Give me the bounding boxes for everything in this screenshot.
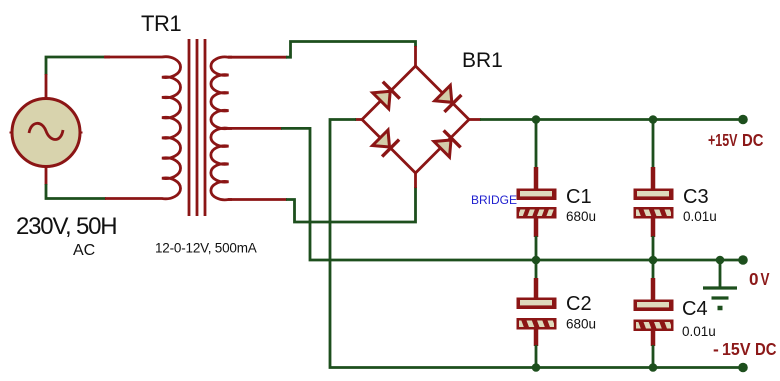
wire: C2 bottom (green) (535, 345, 538, 368)
node: -15V rail / C2 (532, 363, 541, 372)
svg-text:+15VDC: +15VDC (708, 130, 764, 150)
svg-text:C2: C2 (566, 293, 592, 315)
wire: C2 leads (red) (534, 278, 539, 346)
svg-text:0.01u: 0.01u (682, 324, 716, 339)
node: -15V terminal (738, 363, 748, 373)
wire: C3-C4 mid (green) (652, 236, 655, 279)
wire: C1-C2 mid (green) (535, 236, 538, 279)
capacitor C1 (517, 189, 563, 222)
wire: secondary top to bridge top (green) (286, 42, 416, 58)
svg-text:C3: C3 (683, 186, 709, 208)
node: +15V rail / C1 (532, 115, 541, 124)
wire: bridge top stub (red) (414, 46, 417, 67)
wire: +15V rail (green) (480, 118, 743, 121)
diode D3 (left to bottom) (373, 130, 400, 157)
capacitor C4 (634, 300, 683, 334)
ground (703, 260, 737, 308)
wire: primary top (red horizontal) (104, 56, 110, 59)
wire: AC source bottom lead (red vertical) (45, 166, 48, 185)
transformer TR1 core (189, 39, 205, 216)
wire: C3 leads (red) (651, 167, 656, 237)
wire: AC source top lead (red vertical) (45, 74, 48, 98)
node: +15V terminal (738, 115, 748, 125)
wire: AC source top lead (green corner) (46, 57, 106, 75)
node: 0V rail / C3-C4 (649, 256, 658, 265)
svg-text:12-0-12V, 500mA: 12-0-12V, 500mA (155, 241, 257, 256)
wire: bridge bottom stub (red) (414, 172, 417, 188)
node: -15V rail / C4 (649, 363, 658, 372)
node: +15V rail / C3 (649, 115, 658, 124)
svg-text:TR1: TR1 (141, 11, 181, 36)
bridge BR1 (362, 66, 469, 173)
transformer TR1 secondary bottom coil (211, 128, 232, 200)
diode D1 (left to top) (373, 82, 400, 109)
bridge edge top-left (362, 66, 416, 120)
capacitor C2 (517, 298, 566, 333)
wire: C4 bottom (green) (652, 345, 655, 368)
svg-text:680u: 680u (566, 209, 596, 224)
wire: bridge right stub (red) (469, 118, 481, 121)
wire: bridge left stub (red) (355, 118, 362, 121)
bridge edge bottom-right (416, 120, 470, 174)
svg-text:0.01u: 0.01u (683, 209, 717, 224)
wire: AC source bottom lead (green corner) (46, 184, 106, 199)
bridge edge bottom-left (362, 120, 416, 174)
wire: secondary bottom terminal (red) (228, 198, 287, 201)
svg-text:680u: 680u (566, 317, 596, 332)
transformer TR1 primary coil (105, 57, 181, 199)
wire: secondary top terminal (red) (228, 56, 287, 59)
transformer TR1 secondary top coil (211, 57, 232, 129)
diode D2 (top to right) (435, 85, 462, 112)
bridge edge top-right (416, 66, 470, 120)
svg-text:BR1: BR1 (462, 49, 503, 72)
wire: bridge left to -15V rail (green) (330, 120, 743, 368)
node: 0V rail / C1-C2 (532, 256, 541, 265)
wire: C1 upper (green) (535, 120, 538, 169)
svg-text:-15VDC: -15VDC (713, 339, 777, 359)
svg-text:C1: C1 (566, 186, 592, 208)
node: 0V terminal (738, 255, 748, 265)
diode D4 (bottom to right) (434, 130, 461, 157)
AC source V1 (10, 99, 83, 167)
svg-text:230V, 50H: 230V, 50H (16, 213, 116, 240)
wire: C1 upper (red) (534, 167, 539, 237)
svg-text:AC: AC (73, 242, 95, 259)
wire: center tap to 0V rail (green) (281, 128, 743, 260)
capacitor C3 (634, 189, 683, 222)
svg-text:C4: C4 (682, 298, 708, 320)
wire: C4 leads (red) (651, 278, 656, 346)
wire: C3 upper (green) (652, 120, 655, 169)
svg-text:BRIDGE: BRIDGE (471, 193, 517, 207)
wire: secondary bottom to bridge bottom (green) (286, 187, 416, 222)
wire: center tap (red) (228, 127, 282, 130)
node: 0V rail / ground tap (716, 256, 725, 265)
